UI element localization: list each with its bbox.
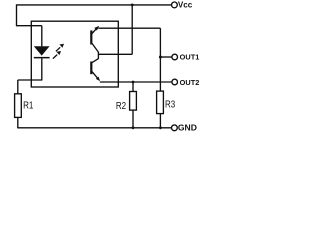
package box U1 [31,21,118,87]
terminal Vcc [172,2,178,8]
wire LED cathode drop [41,58,43,80]
wire LED anode branch [16,25,42,27]
wire cathode to R1 horizontal [18,79,43,81]
wire R1 top drop [17,80,19,94]
LED light arrows [53,44,64,59]
resistor R2 [130,92,137,111]
junction R2 top [132,81,135,84]
phototransistor Q2 [91,59,100,82]
wire LED anode drop [41,26,43,47]
wire Q2 emitter to OUT2 horizontal [100,81,172,83]
resistor R3 [157,91,164,114]
junction R3 ground [159,126,162,129]
junction OUT1 [159,56,162,59]
wire Q1 emitter to OUT1 horizontal [98,27,160,29]
ground wire [17,127,171,129]
wire left drop from Vcc rail [16,4,18,25]
terminal GND [172,125,178,131]
svg-text:Vcc: Vcc [178,1,193,10]
wire Q1 collector bus vertical [97,52,99,59]
wire top Vcc rail [17,4,172,6]
wire Vcc riser [131,5,133,54]
wire R3 bottom stub [159,114,161,128]
junction at Vcc rail [131,4,134,7]
junction R2 ground [132,126,135,129]
phototransistor Q1 [91,26,99,52]
terminal OUT1 [172,54,178,60]
wire OUT1 lead [160,56,172,58]
svg-text:GND: GND [178,124,197,133]
svg-text:OUT1: OUT1 [180,53,200,62]
svg-text:R3: R3 [165,100,176,111]
resistor R1 [15,94,22,118]
terminal OUT2 [172,79,178,85]
wire R1 bottom [17,117,19,127]
LED D1 [34,46,50,58]
wire collector to Vcc riser horizontal [98,53,132,55]
svg-text:R1: R1 [23,100,34,111]
wire R2 bottom stub [132,110,134,128]
svg-text:R2: R2 [116,101,127,112]
wire R2 top stub [132,82,134,92]
wire OUT1 drop down to R3 [159,28,161,91]
svg-text:OUT2: OUT2 [180,78,200,87]
